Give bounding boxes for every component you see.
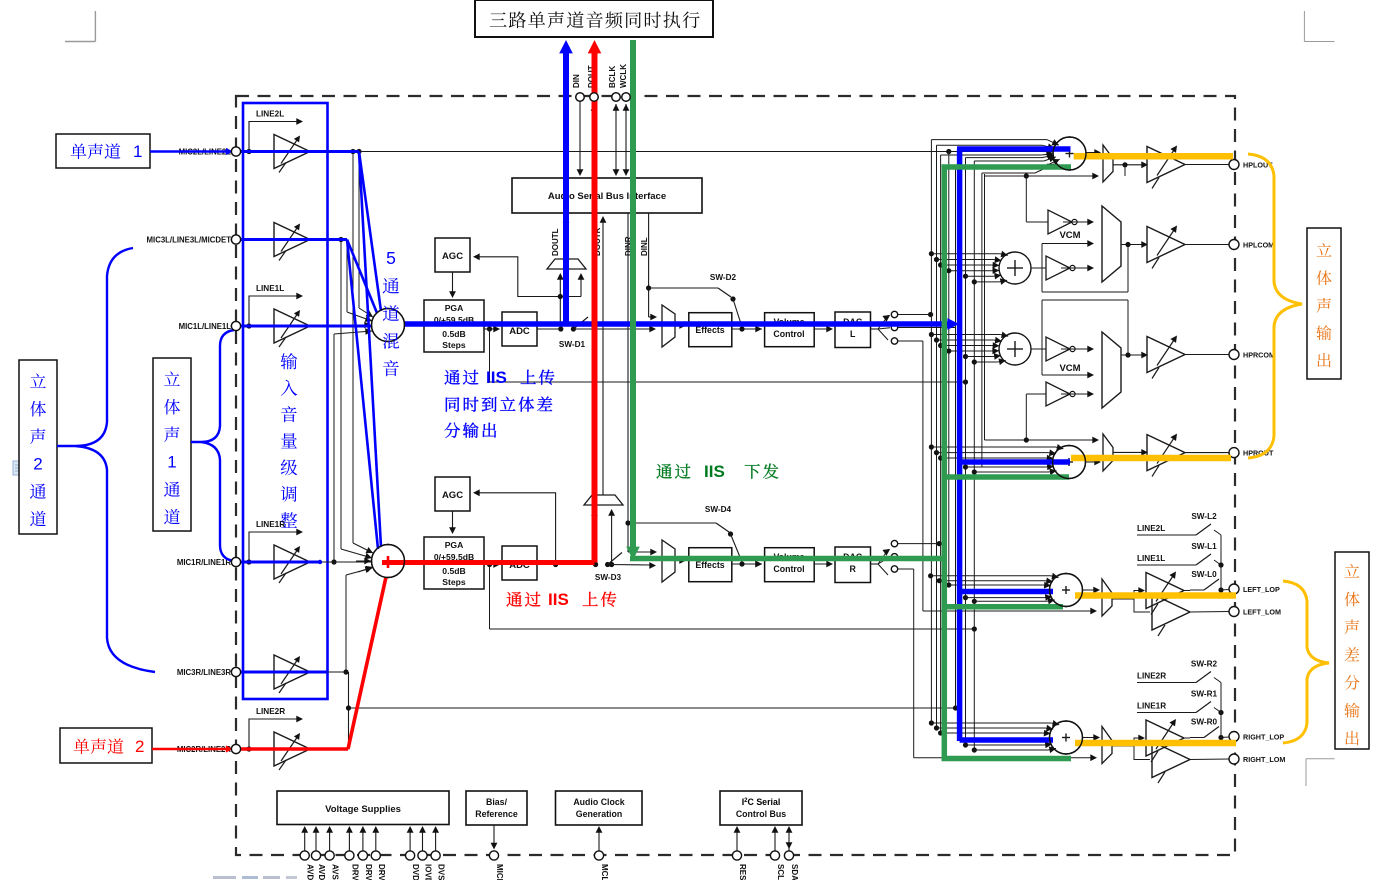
yellow brace stereo HP out — [1248, 154, 1302, 458]
HPLCOM amp — [1147, 227, 1185, 263]
svg-text:Audio Clock: Audio Clock — [573, 797, 624, 807]
DINR line — [627, 213, 629, 552]
HPLOUT amp — [1147, 147, 1185, 183]
vertical routing bus — [930, 140, 932, 723]
blue row MIC1R — [240, 561, 320, 564]
red tick at mixer R — [387, 556, 390, 568]
svg-text:LINE1L: LINE1L — [1137, 554, 1165, 563]
input amp row y=749 — [241, 748, 274, 750]
mux L (DIN/ADC select) — [662, 305, 675, 347]
green drop DIN — [630, 40, 636, 551]
HPLOUT pin — [1229, 160, 1239, 170]
brace stereo2 (blue) — [57, 248, 155, 672]
DAC R box — [835, 547, 871, 583]
svg-text:1: 1 — [133, 142, 142, 161]
svg-text:SW-D3: SW-D3 — [595, 573, 622, 582]
svg-text:LINE1R: LINE1R — [1137, 702, 1166, 711]
red diag LINE2R->mixR — [348, 577, 386, 749]
svg-text:AVDD: AVDD — [317, 864, 326, 880]
pin DIN — [579, 101, 581, 173]
svg-text:Voltage Supplies: Voltage Supplies — [325, 804, 401, 815]
svg-text:BCLK: BCLK — [608, 66, 617, 88]
DAC R low feeder — [913, 569, 915, 758]
svg-text:R: R — [850, 564, 857, 574]
svg-text:SW-D4: SW-D4 — [705, 505, 732, 514]
annotation blue IIS upload — [444, 370, 459, 385]
DAC R out switches — [871, 563, 879, 565]
mixerR feeds — [350, 149, 355, 154]
label box 立体声1通道 — [153, 358, 191, 531]
supply pin DRVDD2 — [362, 828, 364, 851]
DAC L low feeder — [922, 341, 924, 611]
HPLOUT mux — [1103, 145, 1113, 182]
svg-text:1: 1 — [167, 452, 176, 471]
svg-text:AVSS: AVSS — [331, 864, 340, 880]
blue diag MIC2L->mixR — [359, 152, 381, 548]
svg-text:Steps: Steps — [442, 577, 466, 587]
redraw pins over color — [231, 147, 240, 156]
blue row MIC3R — [240, 671, 328, 674]
Bias/Reference box — [466, 791, 527, 825]
HPRCOM amp — [1147, 337, 1185, 373]
svg-text:Control: Control — [773, 329, 804, 339]
long line ADC-R tap — [489, 565, 491, 630]
Voltage Supplies box — [277, 791, 449, 825]
PGA-ADC wire R — [405, 560, 425, 562]
HPROUT mixer — [1053, 446, 1086, 479]
label box 立体声输出 — [1307, 228, 1341, 379]
input amp row y=672 — [241, 671, 274, 673]
blue to LEFT mixer — [958, 589, 1054, 595]
svg-text:IIS: IIS — [548, 590, 569, 609]
MIC3R routing wire — [310, 671, 349, 673]
blue diag MIC2L->mixL — [359, 152, 381, 312]
Audio Clock Generation box — [556, 791, 643, 825]
alt line to HPL mux — [984, 174, 986, 440]
green to HPROUT mixer — [944, 474, 1069, 480]
supply pin DRVDD1 — [348, 828, 350, 851]
long line ADC-L tap — [489, 329, 491, 382]
brace stereo1 (blue) — [191, 330, 234, 561]
label box 单声道 1 — [56, 134, 150, 168]
HPROUT amp — [1147, 435, 1185, 471]
svg-text:DVSS: DVSS — [437, 864, 446, 880]
svg-text:AGC: AGC — [442, 490, 463, 501]
LEFT amps — [1146, 573, 1184, 609]
AGC L box — [435, 238, 470, 272]
blue to HPLOUT mixer — [957, 146, 1071, 152]
red main ADC R — [382, 560, 595, 565]
HPLCOM pin — [1229, 240, 1239, 250]
input pin MIC1R/LINE1R — [231, 557, 240, 566]
svg-text:IIS: IIS — [704, 462, 725, 481]
green vertical bus — [942, 165, 948, 761]
fan into LEFT mixer — [928, 573, 933, 578]
redraw DAC arrows over color — [883, 315, 890, 322]
DOUTL collector mux — [547, 259, 586, 269]
pin DOUT — [593, 105, 595, 178]
svg-text:IOVDD: IOVDD — [424, 864, 433, 880]
PGA R box — [424, 537, 484, 589]
label box 单声道 2 — [60, 728, 152, 763]
green to HPLOUT mixer — [942, 164, 1072, 170]
svg-text:I2C Serial: I2C Serial — [742, 797, 781, 807]
bus top corners to HPLOUT mixer — [931, 139, 1047, 141]
blue to RIGHT mixer — [960, 737, 1053, 743]
page corner mark top-right — [1303, 11, 1305, 42]
red row LINE2R — [240, 747, 348, 751]
svg-text:DRVDD1: DRVDD1 — [350, 864, 359, 880]
svg-text:HPRCOM: HPRCOM — [1243, 351, 1275, 360]
yellow HPROUT — [1071, 455, 1231, 462]
HPLOUT mixer — [1053, 137, 1086, 170]
chip dashed border — [236, 96, 1235, 855]
fan into HPLCOM sum — [929, 251, 934, 256]
yellow brace line out — [1283, 581, 1329, 743]
MCLK pin — [598, 828, 600, 851]
svg-text:0.5dB: 0.5dB — [442, 566, 465, 576]
svg-text:2: 2 — [135, 737, 144, 756]
green to RIGHT mixer — [942, 756, 1072, 762]
svg-text:MIC1R/LINE1R: MIC1R/LINE1R — [177, 558, 232, 567]
svg-text:LINE1L: LINE1L — [256, 284, 284, 293]
svg-text:MIC1L/LINE1L: MIC1L/LINE1L — [179, 322, 232, 331]
svg-text:VCM: VCM — [1059, 363, 1080, 374]
HPLCOM big mux — [1102, 206, 1121, 282]
RIGHT_LOM pin — [1229, 754, 1239, 764]
svg-text:0.5dB: 0.5dB — [442, 329, 465, 339]
supply pin AVDD — [304, 828, 306, 851]
svg-text:DIN: DIN — [572, 74, 581, 88]
Effects-Volume wire R — [732, 563, 762, 565]
svg-text:SCL: SCL — [776, 864, 785, 880]
SW-D1 — [537, 328, 561, 330]
svg-text:Control Bus: Control Bus — [736, 809, 786, 819]
input amp row y=326 — [241, 325, 274, 327]
page corner mark bottom-right — [1305, 759, 1307, 786]
SCL pin — [774, 828, 776, 851]
title box 三路单声道音频同时执行 — [475, 0, 713, 37]
I2C Serial Control Bus box — [720, 791, 802, 825]
svg-text:AGC: AGC — [442, 251, 463, 262]
RIGHT mux — [1102, 727, 1112, 764]
supply pin DVDD — [409, 828, 411, 851]
Volume Control R box — [765, 548, 815, 582]
supply pin AVDD — [315, 828, 317, 851]
ADC L box — [502, 312, 537, 346]
input amp row y=239.5 — [241, 239, 274, 241]
label box 立体声2通道 — [19, 360, 57, 534]
long line LINE2R tap — [349, 707, 956, 709]
svg-text:IIS: IIS — [486, 368, 507, 387]
yellow RIGHT_LOP — [1075, 740, 1236, 747]
DAC L box — [835, 312, 871, 348]
blue vertical bus right — [957, 149, 963, 741]
SW-R0 — [1190, 737, 1204, 739]
red riser DOUTR — [592, 52, 598, 563]
svg-text:LEFT_LOP: LEFT_LOP — [1243, 585, 1280, 594]
svg-text:SW-L2: SW-L2 — [1191, 512, 1217, 521]
supply pin DRVSS — [375, 828, 377, 851]
svg-text:SW-D2: SW-D2 — [710, 273, 737, 282]
LEFT mux — [1102, 579, 1112, 616]
svg-text:MIC3R/LINE3R: MIC3R/LINE3R — [177, 668, 232, 677]
input pin MIC3L/LINE3L/MICDET — [231, 235, 240, 244]
svg-text:WCLK: WCLK — [619, 64, 628, 88]
svg-text:ADC: ADC — [509, 326, 530, 337]
RIGHT amps — [1146, 720, 1184, 756]
svg-text:LINE2L: LINE2L — [1137, 524, 1165, 533]
supply pin AVSS — [329, 828, 331, 851]
svg-text:RIGHT_LOM: RIGHT_LOM — [1243, 755, 1285, 764]
MICBIAS pin — [493, 825, 495, 847]
svg-text:LINE1R: LINE1R — [256, 520, 285, 529]
svg-text:Reference: Reference — [475, 809, 518, 819]
pin WCLK — [625, 104, 627, 174]
input pin MIC1L/LINE1L — [231, 321, 240, 330]
blue to HPROUT mixer — [960, 459, 1070, 465]
svg-text:HPLCOM: HPLCOM — [1243, 241, 1274, 250]
buffer2b — [1046, 337, 1070, 361]
fan into HPROUT mixer — [929, 444, 934, 449]
pin BCLK — [615, 104, 617, 174]
yellow HPLOUT — [1074, 153, 1233, 160]
cut caption fragments bottom-left — [213, 876, 236, 879]
SW-L0 — [1190, 589, 1204, 591]
svg-text:MIC3L/LINE3L/MICDET: MIC3L/LINE3L/MICDET — [147, 236, 232, 245]
LEFT_LOP pin — [1229, 584, 1239, 594]
LEFT mixer — [1050, 574, 1083, 607]
document icon artifact — [13, 461, 24, 475]
svg-text:SW-D1: SW-D1 — [559, 340, 586, 349]
AGC R box — [435, 477, 470, 511]
green main DAC R — [630, 556, 945, 562]
HPROUT mux — [1103, 434, 1113, 471]
Effects-Volume wire L — [732, 328, 762, 330]
annotation red IIS upload — [506, 592, 521, 607]
PGA-ADC wire L — [405, 324, 425, 326]
svg-text:PGA: PGA — [445, 540, 464, 550]
svg-text:RIGHT_LOP: RIGHT_LOP — [1243, 733, 1284, 742]
v8 alt feed top — [982, 172, 1035, 174]
buffer1 — [1048, 210, 1072, 234]
DAC L out switches — [871, 328, 879, 330]
svg-text:5: 5 — [386, 248, 396, 268]
HPROUT pin — [1229, 448, 1239, 458]
svg-text:Bias/: Bias/ — [486, 797, 508, 807]
blue row MIC1L — [240, 325, 372, 328]
svg-text:Control: Control — [773, 564, 804, 574]
buffer3 — [1046, 382, 1070, 406]
page corner mark top-left — [94, 11, 96, 42]
svg-text:DINL: DINL — [640, 237, 649, 256]
svg-text:SW-L1: SW-L1 — [1191, 542, 1217, 551]
input amp row y=151.5 — [241, 151, 274, 153]
svg-text:2: 2 — [33, 454, 42, 473]
AGC L tap — [476, 257, 581, 297]
Volume-DAC wire R — [814, 563, 832, 565]
SW-D4 — [625, 520, 630, 525]
input volume blue rect — [243, 103, 328, 699]
AGC R tap — [476, 493, 556, 565]
svg-text:LINE2R: LINE2R — [256, 707, 285, 716]
Volume-DAC wire L — [814, 328, 832, 330]
svg-text:SDA: SDA — [790, 864, 799, 880]
svg-text:DVDD: DVDD — [411, 864, 420, 880]
blue row MIC3L — [240, 238, 347, 241]
svg-text:SW-R1: SW-R1 — [1191, 690, 1218, 699]
svg-text:LINE2L: LINE2L — [256, 110, 284, 119]
fan into HPRCOM sum — [929, 332, 934, 337]
svg-text:LINE2R: LINE2R — [1137, 672, 1166, 681]
Volume Control L box — [765, 313, 815, 347]
blue riser DOUTL — [563, 52, 569, 324]
DINL line — [648, 213, 650, 317]
svg-text:Steps: Steps — [442, 340, 466, 350]
long line MIC2L to outputs — [359, 151, 949, 153]
svg-text:MICBIAS: MICBIAS — [495, 864, 504, 880]
RIGHT_LOP pin — [1229, 732, 1239, 742]
HPRCOM sum — [999, 333, 1031, 365]
svg-text:AVDD: AVDD — [306, 864, 315, 880]
input pin MIC2R/LINE2R — [231, 744, 240, 753]
svg-text:VCM: VCM — [1059, 230, 1080, 241]
annotation green IIS download — [656, 464, 671, 479]
supply pin DVSS — [435, 828, 437, 851]
svg-text:PGA: PGA — [445, 303, 464, 313]
RESET pin — [736, 828, 738, 851]
SW-D2 — [646, 285, 651, 290]
label box 立体声差分输出 — [1335, 552, 1369, 749]
LEFT_LOM pin — [1229, 607, 1239, 617]
ADC R box — [502, 546, 537, 580]
svg-text:SW-R2: SW-R2 — [1191, 660, 1218, 669]
blue main bus — [404, 321, 949, 327]
svg-text:LEFT_LOM: LEFT_LOM — [1243, 608, 1281, 617]
svg-text:RESET: RESET — [738, 864, 747, 880]
SW-D3 — [537, 564, 596, 566]
fan into RIGHT mixer — [929, 720, 934, 725]
input mixer L (5-channel) — [372, 309, 405, 342]
input pin MIC2L/LINE2L — [231, 147, 240, 156]
svg-text:DOUTL: DOUTL — [551, 228, 560, 256]
svg-text:Generation: Generation — [576, 809, 622, 819]
svg-text:L: L — [850, 329, 856, 339]
HPRCOM pin — [1229, 350, 1239, 360]
redraw mixer circles over color — [1053, 137, 1086, 170]
supply pin IOVDD — [422, 828, 424, 851]
Audio Serial Bus Interface box — [512, 178, 702, 213]
svg-text:DRVDD2: DRVDD2 — [364, 864, 373, 880]
input amp row y=562 — [241, 561, 274, 563]
input pin MIC3R/LINE3R — [231, 667, 240, 676]
blue diag MIC3L->mixR — [347, 240, 378, 550]
svg-text:SW-R0: SW-R0 — [1191, 718, 1218, 727]
HPLCOM sum — [999, 252, 1031, 284]
blue overlay: MIC2L entry — [150, 150, 228, 153]
svg-text:SW-L0: SW-L0 — [1191, 570, 1217, 579]
svg-text:Effects: Effects — [695, 560, 724, 570]
PGA L box — [424, 300, 484, 352]
blue overlay row MIC2L — [240, 150, 359, 153]
DOUTR collector mux — [584, 495, 623, 505]
blue diag MIC3L->mixL — [347, 240, 377, 314]
HPRCOM big mux — [1102, 332, 1121, 408]
vertical label 输入音量级调整 — [281, 353, 298, 369]
svg-text:MCLK: MCLK — [600, 864, 609, 880]
mux R (DIN/ADC select) — [662, 540, 675, 582]
red overlay: MIC2R entry — [152, 748, 228, 751]
buffer2 — [1046, 256, 1070, 280]
Effects R box — [689, 548, 732, 582]
SDA pin — [788, 828, 790, 851]
mixerL feeds — [356, 149, 361, 154]
RIGHT mixer — [1050, 721, 1083, 754]
yellow LEFT_LOP — [1075, 592, 1236, 599]
Effects L box — [689, 313, 732, 347]
green to LEFT mixer — [944, 604, 1063, 610]
input mixer R — [372, 545, 405, 578]
LINE2R wire under red — [310, 748, 349, 750]
alt line to HPROUT mux — [985, 439, 1097, 441]
svg-text:DRVSS: DRVSS — [377, 864, 386, 880]
